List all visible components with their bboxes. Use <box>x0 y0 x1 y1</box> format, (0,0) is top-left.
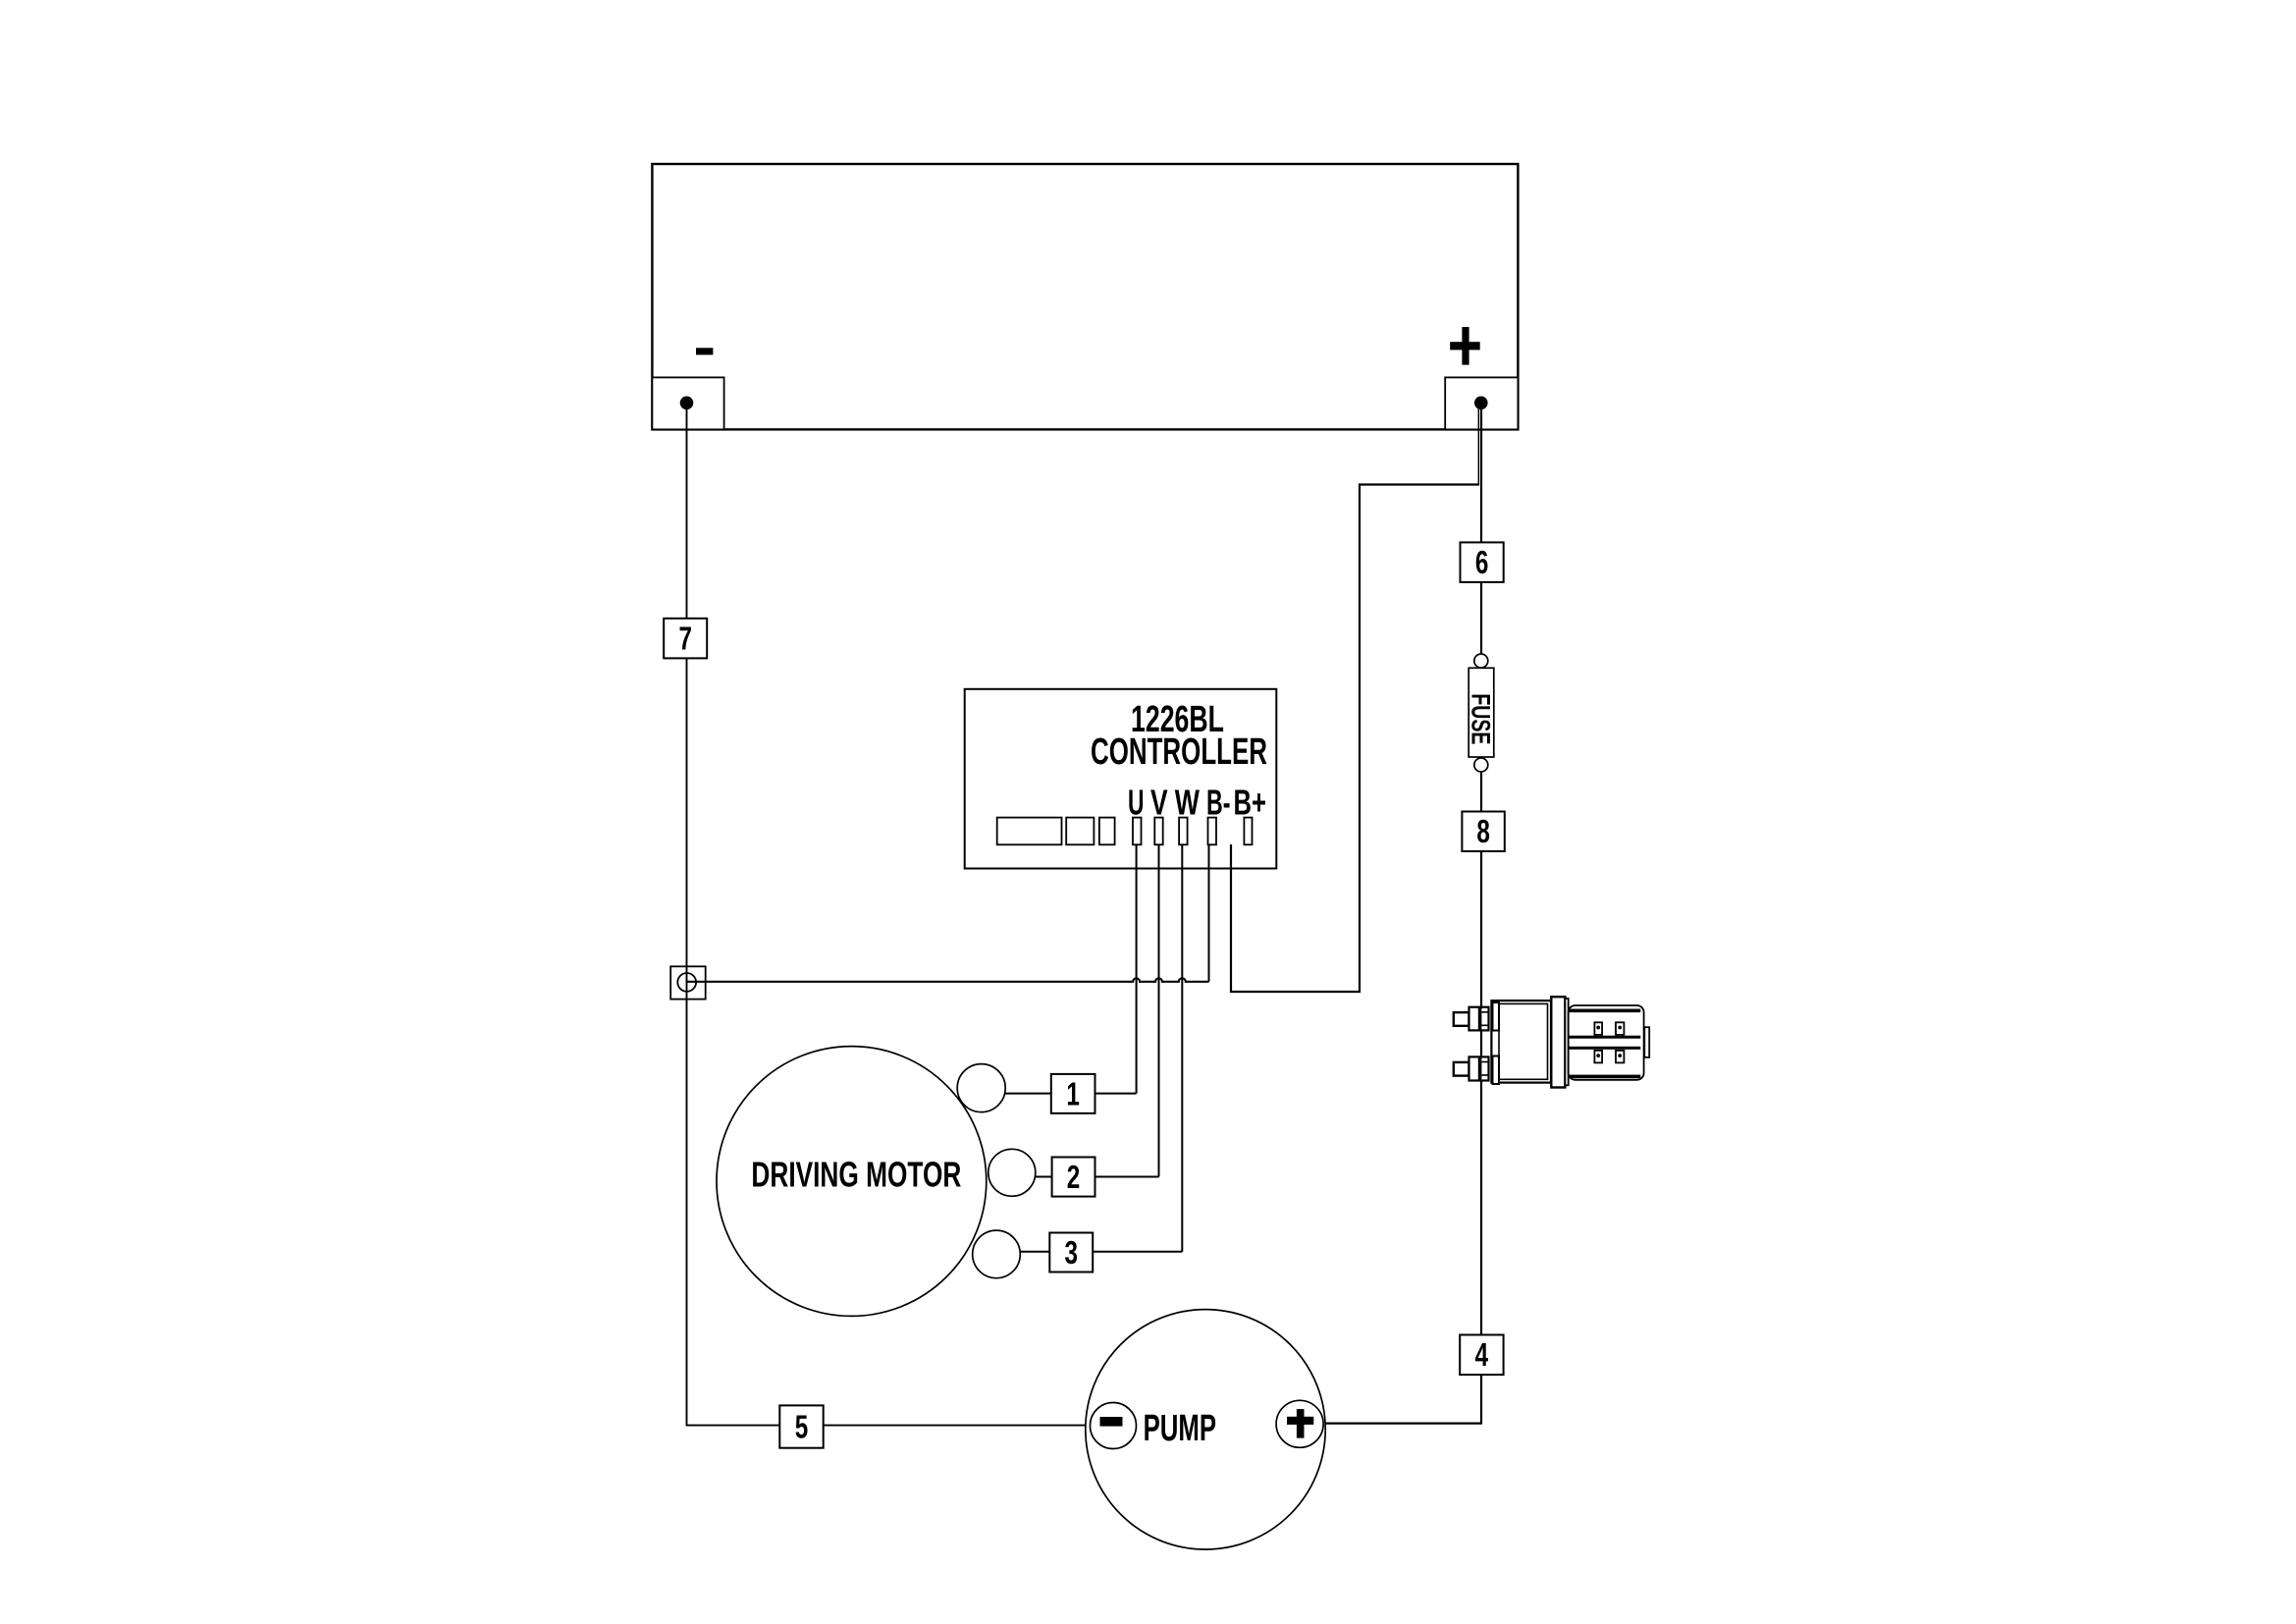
contactor coil body <box>1569 1005 1644 1080</box>
battery negative terminal dot <box>680 397 694 410</box>
svg-text:W: W <box>1175 783 1200 823</box>
contactor coil terminal BL <box>1594 1051 1602 1063</box>
svg-text:5: 5 <box>795 1410 809 1446</box>
wire net7: battery negative down left side to pump minus <box>687 403 1093 1426</box>
pump plus terminal circle <box>1276 1400 1323 1447</box>
pump plus sign <box>1287 1409 1313 1438</box>
wire V: controller V pin to motor terminal 2 <box>1035 842 1159 1177</box>
contactor bottom stud nut <box>1469 1056 1489 1080</box>
contactor coil terminal BR <box>1616 1051 1624 1063</box>
battery positive terminal dot <box>1474 397 1488 410</box>
battery minus label <box>696 348 713 354</box>
label box 5 <box>779 1405 823 1447</box>
svg-text:DRIVING MOTOR: DRIVING MOTOR <box>751 1155 961 1195</box>
label box 8 <box>1462 812 1504 852</box>
svg-text:FUSE: FUSE <box>1467 693 1496 744</box>
controller pin B- pad <box>1208 818 1217 845</box>
controller pin B+ pad <box>1244 818 1252 845</box>
contactor coil top bar <box>1569 1009 1641 1013</box>
battery negative terminal box <box>652 377 723 429</box>
contactor left flange bar top <box>1493 1002 1500 1031</box>
contactor right stub <box>1644 1027 1649 1057</box>
contactor coil terminal TR <box>1616 1022 1624 1035</box>
contactor left flange bar bottom <box>1493 1056 1500 1085</box>
svg-text:B+: B+ <box>1234 783 1267 823</box>
controller pin V pad <box>1154 818 1162 845</box>
controller pin U pad <box>1133 818 1142 845</box>
battery positive terminal box <box>1445 377 1518 429</box>
motor terminal 2 circle <box>988 1149 1036 1196</box>
wire B- vertical from controller pin <box>1208 842 1210 982</box>
wire net B+: controller B+ to battery positive <box>1477 405 1479 485</box>
contactor mounting flange <box>1551 997 1565 1087</box>
wire net6: battery positive down right column to pump plus <box>1325 403 1481 1424</box>
svg-text:3: 3 <box>1064 1235 1078 1272</box>
contactor coil terminal TL <box>1594 1022 1602 1035</box>
wire W: controller W pin to motor terminal 3 <box>1020 842 1183 1252</box>
svg-text:V: V <box>1150 783 1168 823</box>
pump P1 <box>1086 1310 1325 1549</box>
wire U: controller U pin to motor terminal 1 <box>1005 842 1137 1094</box>
svg-text:CONTROLLER: CONTROLLER <box>1091 731 1267 773</box>
controller connector pad large <box>997 818 1062 845</box>
label box 4 <box>1460 1335 1503 1376</box>
label box 6 <box>1461 542 1504 582</box>
label box 3 <box>1049 1233 1093 1272</box>
junction node on net7 <box>670 966 706 999</box>
svg-text:2: 2 <box>1067 1160 1081 1196</box>
svg-text:8: 8 <box>1476 814 1490 850</box>
motor terminal 1 circle <box>957 1064 1005 1112</box>
contactor coil middle band <box>1569 1036 1641 1039</box>
svg-text:4: 4 <box>1475 1337 1489 1374</box>
pump minus terminal circle <box>1091 1403 1137 1449</box>
fuse F1 <box>1467 654 1496 772</box>
battery plus label <box>1450 327 1480 365</box>
svg-text:7: 7 <box>678 622 692 658</box>
svg-text:6: 6 <box>1475 545 1489 581</box>
contactor main body <box>1491 1001 1551 1083</box>
contactor coil bottom bar <box>1569 1075 1641 1079</box>
wire net B-: junction to controller B- with hops over U V W <box>687 978 1209 981</box>
contactor top stud nut <box>1469 1007 1489 1031</box>
controller connector pad small <box>1099 818 1115 845</box>
controller connector pad medium <box>1066 818 1094 845</box>
contactor K1 <box>1454 997 1649 1087</box>
contactor top stud bolt <box>1454 1012 1469 1026</box>
controller U1 1226BL box outline <box>965 689 1277 869</box>
controller pin W pad <box>1179 818 1188 845</box>
driving motor M1 <box>717 1047 987 1317</box>
svg-text:U: U <box>1128 783 1145 823</box>
pump minus sign <box>1100 1417 1123 1427</box>
motor terminal 3 circle <box>973 1230 1021 1278</box>
contactor bottom stud bolt <box>1454 1062 1469 1076</box>
label box 1 <box>1051 1074 1095 1113</box>
battery BT1 <box>652 164 1518 429</box>
svg-text:PUMP: PUMP <box>1144 1408 1217 1449</box>
svg-text:1: 1 <box>1066 1076 1080 1112</box>
label box 7 <box>664 619 707 659</box>
label box 2 <box>1052 1158 1095 1197</box>
svg-text:B-: B- <box>1206 783 1231 823</box>
